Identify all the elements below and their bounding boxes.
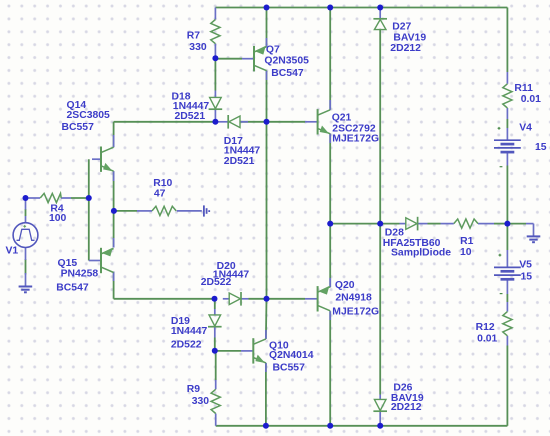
svg-text:2D521: 2D521 [224, 156, 255, 167]
svg-text:R12: R12 [476, 322, 495, 333]
svg-text:R7: R7 [187, 31, 201, 42]
svg-text:D28: D28 [385, 228, 404, 239]
svg-text:SamplDiode: SamplDiode [391, 248, 451, 259]
svg-text:Q2N4014: Q2N4014 [269, 350, 314, 361]
svg-text:2D522: 2D522 [201, 277, 232, 288]
svg-text:R10: R10 [153, 178, 172, 189]
svg-text:D26: D26 [393, 382, 412, 393]
svg-text:0.01: 0.01 [477, 333, 497, 344]
svg-text:MJE172G: MJE172G [332, 134, 379, 145]
svg-text:V4: V4 [519, 123, 532, 134]
svg-text:47: 47 [154, 189, 166, 200]
svg-text:Q2N3505: Q2N3505 [264, 56, 309, 67]
svg-text:Q7: Q7 [266, 45, 280, 56]
svg-text:1N4447: 1N4447 [224, 145, 261, 156]
svg-text:100: 100 [49, 213, 67, 224]
svg-text:V5: V5 [519, 259, 532, 270]
svg-text:2N4918: 2N4918 [335, 293, 372, 304]
svg-text:MJE172G: MJE172G [332, 307, 379, 318]
svg-text:10: 10 [460, 247, 472, 258]
svg-text:2D212: 2D212 [390, 43, 421, 54]
svg-text:Q21: Q21 [332, 113, 352, 124]
svg-text:BC547: BC547 [56, 283, 89, 294]
svg-text:15: 15 [535, 142, 547, 153]
svg-text:2D521: 2D521 [175, 111, 206, 122]
svg-text:R9: R9 [187, 384, 201, 395]
svg-text:R11: R11 [514, 83, 533, 94]
svg-text:D27: D27 [392, 22, 411, 33]
svg-text:BAV19: BAV19 [393, 33, 426, 44]
svg-text:R1: R1 [460, 236, 474, 247]
svg-text:BC557: BC557 [62, 122, 95, 133]
svg-text:0.01: 0.01 [521, 94, 541, 105]
svg-text:1N4447: 1N4447 [171, 326, 208, 337]
svg-text:330: 330 [192, 396, 210, 407]
svg-text:2D522: 2D522 [171, 340, 202, 351]
svg-text:330: 330 [189, 42, 207, 53]
svg-text:2SC3805: 2SC3805 [67, 110, 111, 121]
svg-text:Q15: Q15 [58, 258, 78, 269]
svg-text:2D212: 2D212 [391, 402, 422, 413]
svg-text:BC557: BC557 [273, 363, 306, 374]
svg-text:15: 15 [521, 272, 533, 283]
svg-text:Q20: Q20 [335, 280, 355, 291]
svg-text:BC547: BC547 [271, 68, 304, 79]
svg-text:PN4258: PN4258 [61, 269, 99, 280]
svg-text:V1: V1 [6, 246, 19, 257]
